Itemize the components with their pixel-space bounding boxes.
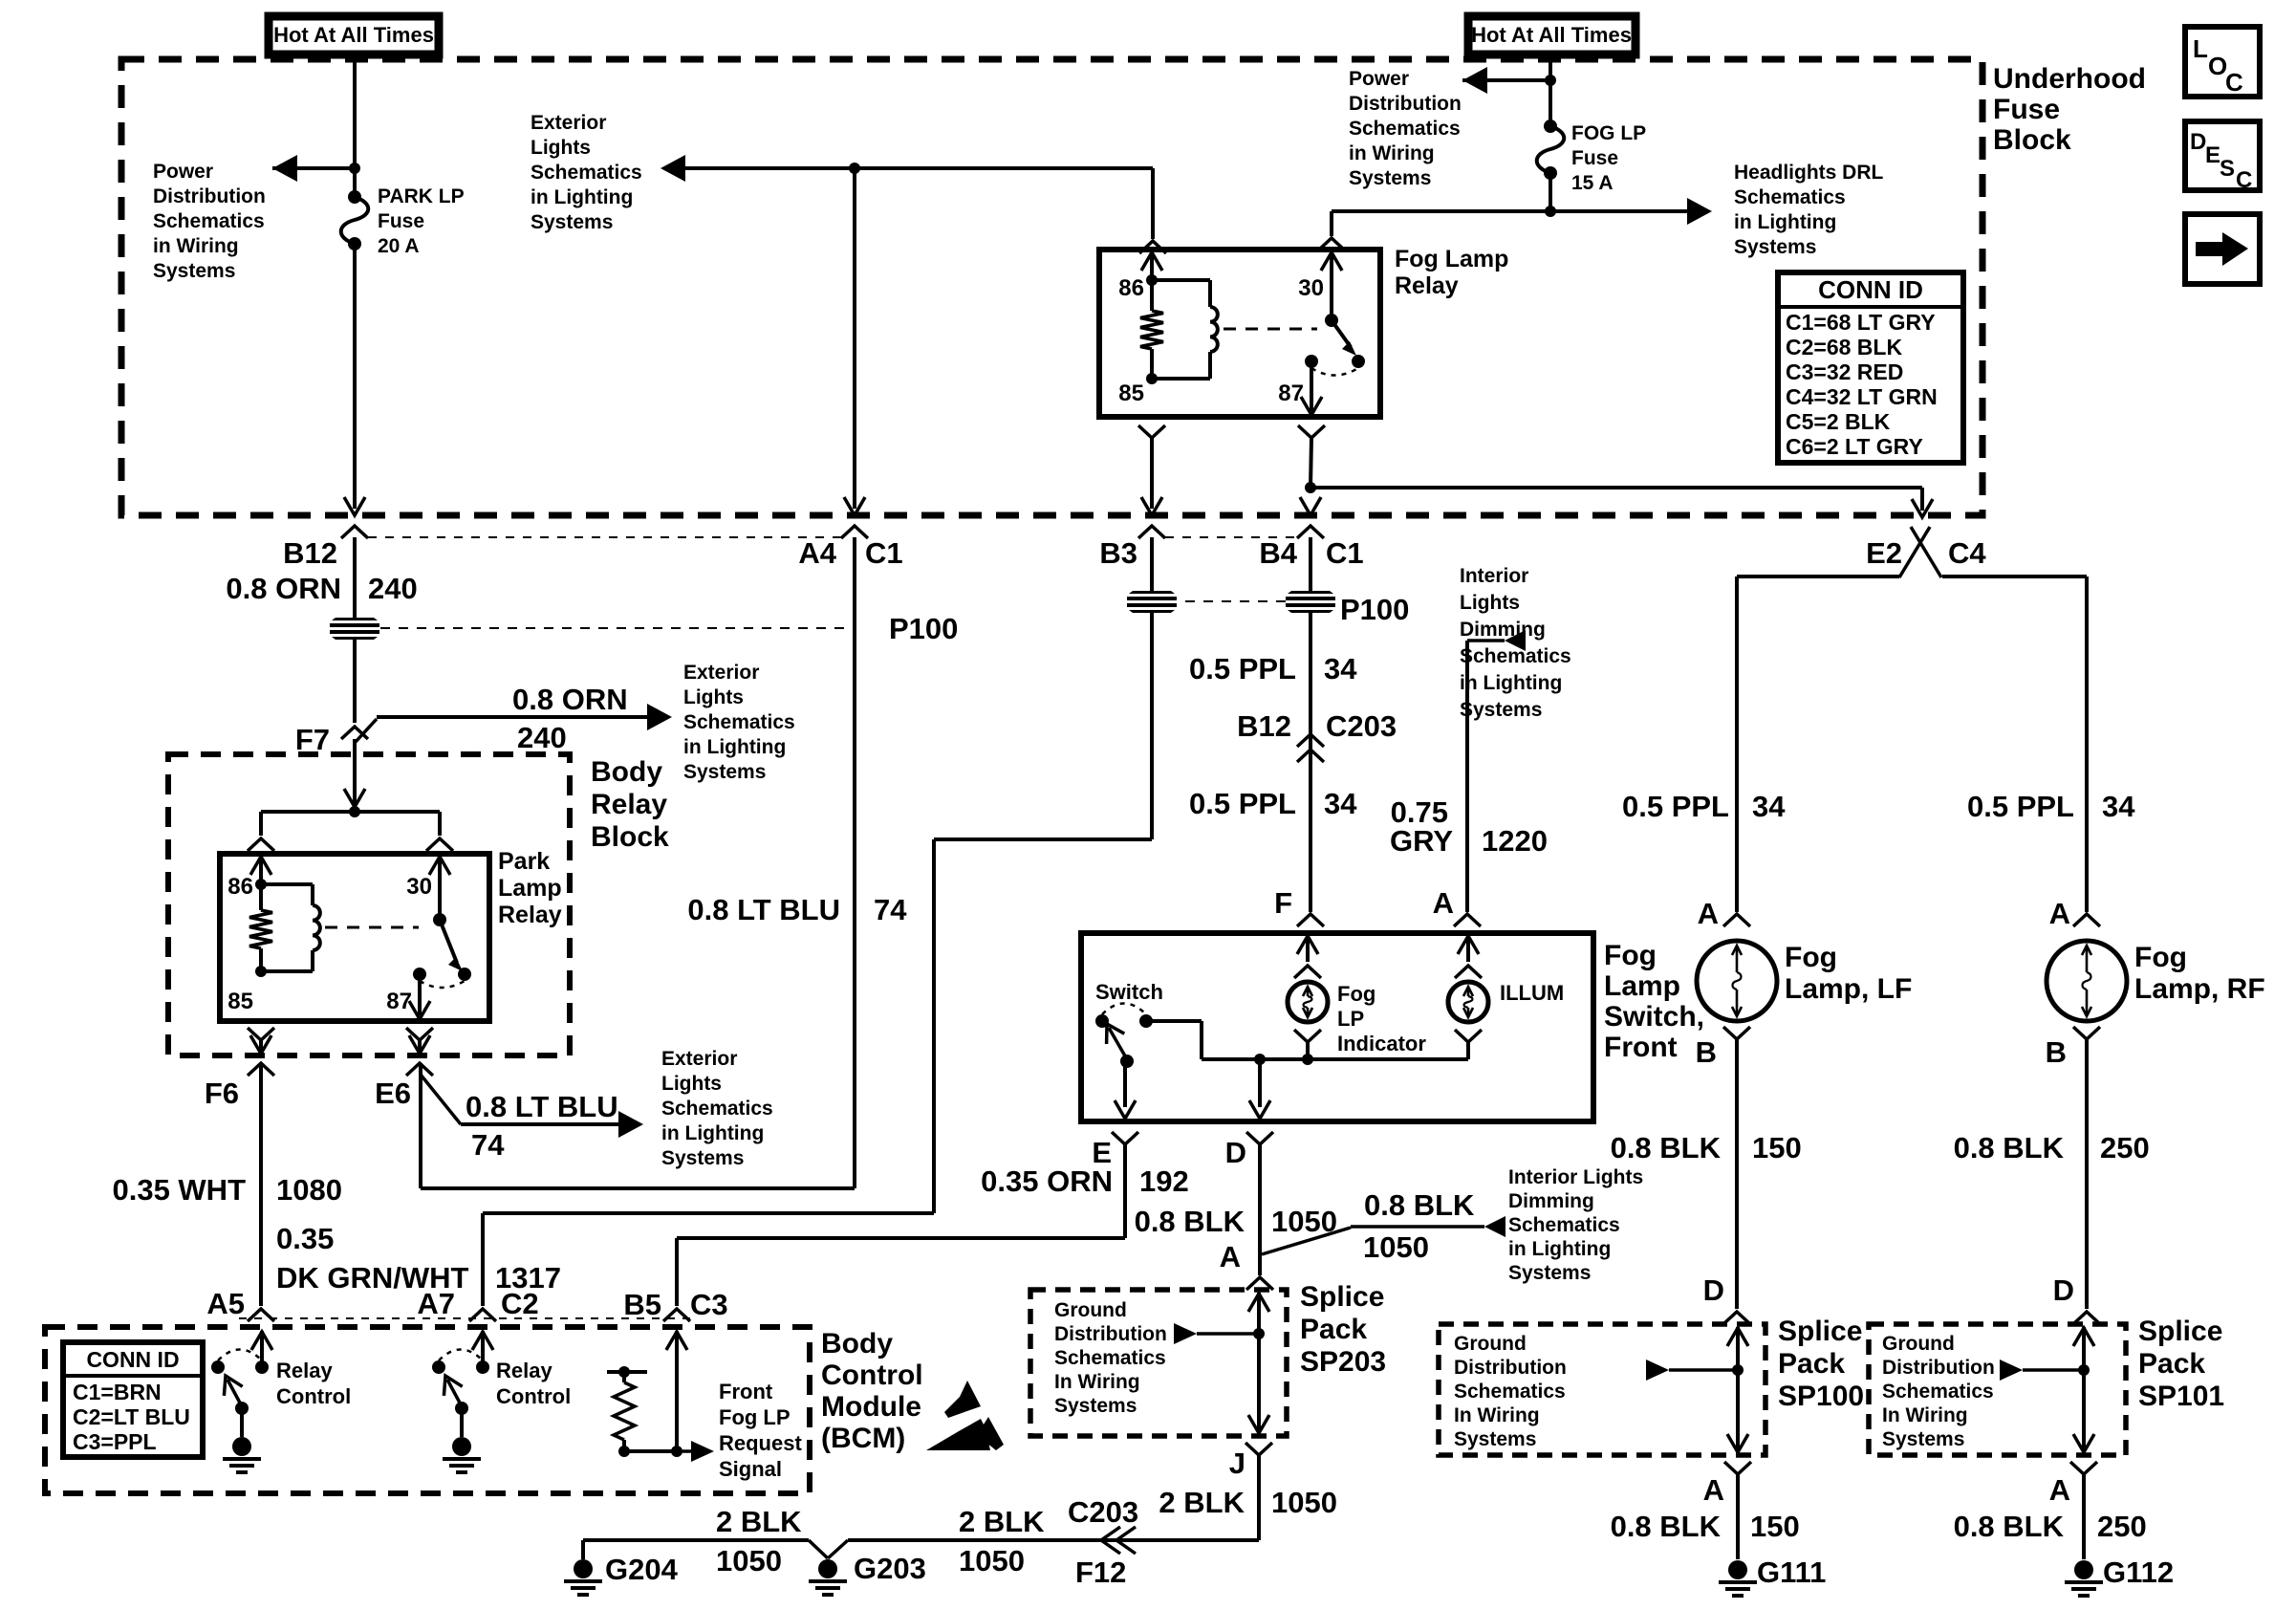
svg-text:Exterior: Exterior [531, 112, 606, 134]
svg-text:A: A [2049, 1473, 2070, 1507]
svg-text:CONN ID: CONN ID [1818, 275, 1923, 304]
svg-text:GRY: GRY [1390, 824, 1453, 858]
svg-text:C6=2 LT GRY: C6=2 LT GRY [1786, 434, 1923, 459]
svg-text:Systems: Systems [1454, 1428, 1536, 1450]
svg-text:Control: Control [496, 1384, 571, 1408]
svg-text:0.35 WHT: 0.35 WHT [112, 1173, 246, 1207]
svg-text:Interior Lights: Interior Lights [1508, 1166, 1643, 1188]
svg-text:Relay: Relay [591, 789, 667, 820]
svg-text:S: S [2220, 156, 2235, 182]
svg-text:SP203: SP203 [1300, 1346, 1386, 1378]
svg-text:0.8 BLK: 0.8 BLK [1611, 1510, 1722, 1543]
svg-text:C1: C1 [865, 536, 903, 570]
svg-text:34: 34 [1324, 787, 1357, 820]
svg-text:PARK LP: PARK LP [378, 185, 465, 207]
svg-text:Fog: Fog [2134, 942, 2187, 973]
svg-text:0.5 PPL: 0.5 PPL [1189, 652, 1296, 685]
svg-text:A: A [1433, 886, 1454, 920]
svg-text:240: 240 [517, 721, 567, 754]
svg-text:Schematics: Schematics [661, 1098, 773, 1120]
svg-text:Schematics: Schematics [531, 162, 642, 184]
svg-text:Relay: Relay [276, 1359, 333, 1382]
svg-text:E: E [2205, 142, 2220, 168]
svg-text:F7: F7 [295, 723, 330, 756]
svg-text:2 BLK: 2 BLK [1159, 1486, 1245, 1519]
svg-text:Dimming: Dimming [1508, 1190, 1594, 1212]
svg-text:Systems: Systems [661, 1147, 744, 1169]
svg-text:0.8 ORN: 0.8 ORN [512, 683, 628, 716]
svg-text:Lamp, LF: Lamp, LF [1785, 973, 1912, 1005]
svg-text:Park: Park [498, 848, 550, 875]
svg-text:Splice: Splice [2138, 1316, 2222, 1347]
svg-text:E6: E6 [375, 1077, 411, 1110]
svg-text:C3=PPL: C3=PPL [73, 1429, 157, 1454]
svg-text:Signal: Signal [719, 1457, 782, 1481]
svg-text:D: D [1225, 1136, 1246, 1169]
svg-text:1050: 1050 [1271, 1486, 1337, 1519]
svg-text:P100: P100 [1340, 593, 1409, 626]
svg-text:Distribution: Distribution [1349, 93, 1462, 115]
svg-text:Power: Power [1349, 68, 1409, 90]
svg-text:150: 150 [1750, 1510, 1800, 1543]
svg-text:0.5 PPL: 0.5 PPL [1967, 790, 2074, 823]
svg-text:G203: G203 [854, 1552, 926, 1585]
svg-text:in Lighting: in Lighting [683, 736, 786, 758]
svg-text:D: D [1703, 1273, 1724, 1307]
svg-text:B5: B5 [623, 1288, 661, 1321]
svg-text:Fog: Fog [1604, 940, 1657, 971]
svg-text:Fog Lamp: Fog Lamp [1395, 246, 1508, 272]
svg-text:C3: C3 [690, 1288, 728, 1321]
svg-text:Relay: Relay [496, 1359, 552, 1382]
svg-text:Distribution: Distribution [1882, 1357, 1995, 1379]
svg-text:C2=68 BLK: C2=68 BLK [1786, 335, 1902, 359]
svg-text:Splice: Splice [1300, 1281, 1384, 1313]
svg-text:2 BLK: 2 BLK [959, 1505, 1045, 1538]
svg-text:in Lighting: in Lighting [1734, 211, 1836, 233]
svg-text:LP: LP [1337, 1007, 1364, 1031]
svg-text:74: 74 [471, 1128, 505, 1162]
svg-text:D: D [2190, 129, 2206, 155]
svg-text:87: 87 [386, 989, 412, 1014]
svg-text:1220: 1220 [1482, 824, 1548, 858]
svg-text:C: C [2236, 167, 2252, 193]
svg-text:34: 34 [2102, 790, 2135, 823]
svg-text:(BCM): (BCM) [821, 1423, 905, 1454]
svg-text:G112: G112 [2103, 1556, 2174, 1589]
svg-text:in Wiring: in Wiring [153, 235, 239, 257]
svg-text:Systems: Systems [1882, 1428, 1964, 1450]
svg-text:Exterior: Exterior [683, 662, 759, 684]
svg-text:Systems: Systems [1054, 1395, 1137, 1417]
svg-text:Schematics: Schematics [1054, 1347, 1166, 1369]
svg-text:B: B [2046, 1035, 2067, 1069]
svg-text:0.8 ORN: 0.8 ORN [226, 572, 341, 605]
svg-text:Dimming: Dimming [1460, 619, 1546, 641]
svg-text:B: B [1696, 1035, 1717, 1069]
svg-text:74: 74 [874, 893, 907, 926]
svg-text:L: L [2193, 34, 2208, 63]
svg-text:Control: Control [821, 1360, 923, 1391]
svg-text:Request: Request [719, 1431, 802, 1455]
svg-text:A4: A4 [798, 536, 836, 570]
svg-text:Systems: Systems [1349, 167, 1431, 189]
svg-text:C1=68 LT GRY: C1=68 LT GRY [1786, 310, 1936, 335]
svg-text:G111: G111 [1757, 1556, 1826, 1589]
svg-text:Distribution: Distribution [1054, 1323, 1167, 1345]
svg-text:P100: P100 [889, 612, 958, 645]
svg-text:1050: 1050 [959, 1544, 1025, 1577]
svg-text:Systems: Systems [153, 260, 235, 282]
svg-text:C3=32 RED: C3=32 RED [1786, 359, 1903, 384]
svg-text:Hot At All Times: Hot At All Times [273, 23, 434, 47]
svg-text:Lights: Lights [683, 686, 744, 708]
svg-text:Pack: Pack [1300, 1314, 1367, 1345]
svg-text:0.35: 0.35 [276, 1222, 334, 1255]
svg-text:85: 85 [227, 989, 253, 1014]
svg-text:150: 150 [1752, 1131, 1802, 1164]
svg-text:Body: Body [591, 756, 662, 788]
svg-text:Fuse: Fuse [1571, 147, 1618, 169]
svg-text:Systems: Systems [1508, 1262, 1591, 1284]
svg-text:Schematics: Schematics [1734, 186, 1846, 208]
svg-text:0.8 BLK: 0.8 BLK [1135, 1205, 1245, 1238]
svg-text:85: 85 [1118, 381, 1144, 406]
svg-text:A: A [1698, 897, 1719, 930]
svg-text:F: F [1274, 886, 1292, 920]
svg-text:C203: C203 [1326, 709, 1397, 743]
svg-text:B4: B4 [1259, 536, 1297, 570]
svg-text:15 A: 15 A [1571, 172, 1614, 194]
svg-text:Body: Body [821, 1328, 893, 1360]
svg-text:Switch,: Switch, [1604, 1001, 1704, 1033]
svg-text:B3: B3 [1099, 536, 1137, 570]
svg-text:E2: E2 [1866, 536, 1902, 570]
svg-text:A: A [2049, 897, 2070, 930]
svg-text:Fog: Fog [1785, 942, 1837, 973]
svg-text:C2=LT BLU: C2=LT BLU [73, 1404, 190, 1429]
svg-text:FOG LP: FOG LP [1571, 122, 1646, 144]
svg-text:0.5 PPL: 0.5 PPL [1189, 787, 1296, 820]
svg-text:Pack: Pack [1778, 1348, 1845, 1380]
svg-text:Ground: Ground [1882, 1333, 1955, 1355]
svg-text:Distribution: Distribution [1454, 1357, 1567, 1379]
svg-text:250: 250 [2097, 1510, 2147, 1543]
svg-text:C: C [2225, 68, 2243, 97]
svg-text:Schematics: Schematics [153, 210, 265, 232]
svg-text:0.8 BLK: 0.8 BLK [1611, 1131, 1722, 1164]
svg-text:86: 86 [227, 874, 253, 900]
svg-text:G204: G204 [605, 1553, 679, 1586]
svg-text:Schematics: Schematics [1460, 645, 1571, 667]
svg-text:Splice: Splice [1778, 1316, 1862, 1347]
svg-text:SP101: SP101 [2138, 1381, 2224, 1412]
svg-text:30: 30 [406, 874, 432, 900]
svg-text:Lamp: Lamp [498, 875, 562, 902]
svg-text:20 A: 20 A [378, 235, 420, 257]
svg-text:2 BLK: 2 BLK [716, 1505, 802, 1538]
svg-text:0.5 PPL: 0.5 PPL [1622, 790, 1729, 823]
svg-text:1080: 1080 [276, 1173, 342, 1207]
svg-text:Systems: Systems [531, 211, 613, 233]
svg-text:C203: C203 [1068, 1495, 1138, 1529]
svg-text:86: 86 [1118, 275, 1144, 301]
svg-text:240: 240 [368, 572, 418, 605]
svg-text:Underhood: Underhood [1993, 63, 2146, 95]
svg-text:C1: C1 [1326, 536, 1364, 570]
svg-text:30: 30 [1298, 275, 1324, 301]
svg-text:A5: A5 [206, 1287, 245, 1320]
svg-text:Ground: Ground [1454, 1333, 1527, 1355]
svg-text:Module: Module [821, 1391, 921, 1423]
svg-text:Lights: Lights [1460, 592, 1520, 614]
svg-text:ILLUM: ILLUM [1500, 981, 1564, 1005]
svg-text:0.8 BLK: 0.8 BLK [1954, 1510, 2065, 1543]
svg-text:In Wiring: In Wiring [1454, 1404, 1540, 1426]
svg-text:0.8 LT BLU: 0.8 LT BLU [687, 893, 840, 926]
svg-text:CONN ID: CONN ID [86, 1347, 179, 1372]
svg-text:Relay: Relay [1395, 272, 1459, 299]
svg-text:Schematics: Schematics [1349, 118, 1461, 140]
svg-text:Hot At All Times: Hot At All Times [1471, 23, 1632, 47]
svg-text:Switch: Switch [1095, 980, 1163, 1004]
svg-text:In Wiring: In Wiring [1054, 1371, 1140, 1393]
svg-text:C1=BRN: C1=BRN [73, 1380, 162, 1404]
svg-text:Control: Control [276, 1384, 351, 1408]
svg-text:0.8 BLK: 0.8 BLK [1364, 1188, 1475, 1222]
svg-text:Systems: Systems [1460, 699, 1542, 721]
svg-text:Ground: Ground [1054, 1299, 1127, 1321]
svg-text:A: A [1703, 1473, 1724, 1507]
svg-text:B12: B12 [283, 536, 337, 570]
svg-text:1050: 1050 [1363, 1230, 1429, 1264]
svg-text:Block: Block [1993, 124, 2071, 156]
svg-text:0.8 BLK: 0.8 BLK [1954, 1131, 2065, 1164]
svg-text:0.35 ORN: 0.35 ORN [981, 1164, 1113, 1198]
svg-text:Block: Block [591, 821, 669, 853]
svg-text:F6: F6 [205, 1077, 239, 1110]
svg-text:C4: C4 [1948, 536, 1986, 570]
svg-text:Lamp, RF: Lamp, RF [2134, 973, 2265, 1005]
svg-text:Fuse: Fuse [378, 210, 424, 232]
svg-text:D: D [2053, 1273, 2074, 1307]
svg-text:Schematics: Schematics [1508, 1214, 1620, 1236]
svg-text:Lamp: Lamp [1604, 970, 1680, 1002]
svg-text:87: 87 [1278, 381, 1304, 406]
svg-text:in Lighting: in Lighting [1460, 672, 1562, 694]
svg-text:Systems: Systems [1734, 236, 1816, 258]
svg-text:in Lighting: in Lighting [531, 186, 633, 208]
svg-text:Pack: Pack [2138, 1348, 2205, 1380]
svg-text:34: 34 [1752, 790, 1786, 823]
svg-text:Headlights DRL: Headlights DRL [1734, 162, 1884, 184]
svg-text:F12: F12 [1075, 1556, 1126, 1589]
svg-text:Systems: Systems [683, 761, 766, 783]
svg-text:250: 250 [2100, 1131, 2150, 1164]
svg-text:B12: B12 [1237, 709, 1291, 743]
svg-text:A: A [1220, 1240, 1241, 1273]
svg-text:C5=2 BLK: C5=2 BLK [1786, 409, 1891, 434]
svg-text:Indicator: Indicator [1337, 1032, 1426, 1055]
svg-text:in Wiring: in Wiring [1349, 142, 1435, 164]
svg-text:Lights: Lights [531, 137, 591, 159]
svg-text:In Wiring: In Wiring [1882, 1404, 1968, 1426]
svg-text:1317: 1317 [495, 1261, 561, 1295]
svg-text:Lights: Lights [661, 1073, 722, 1095]
svg-text:192: 192 [1139, 1164, 1189, 1198]
svg-text:in Lighting: in Lighting [661, 1122, 764, 1144]
svg-text:DK GRN/WHT: DK GRN/WHT [276, 1261, 469, 1295]
svg-text:Schematics: Schematics [1454, 1381, 1566, 1403]
svg-text:SP100: SP100 [1778, 1381, 1864, 1412]
svg-text:Front: Front [1604, 1032, 1678, 1063]
svg-text:Front: Front [719, 1380, 773, 1403]
svg-text:34: 34 [1324, 652, 1357, 685]
svg-text:Interior: Interior [1460, 565, 1528, 587]
svg-text:Relay: Relay [498, 902, 562, 928]
svg-text:J: J [1229, 1447, 1245, 1480]
svg-text:Fuse: Fuse [1993, 94, 2060, 125]
svg-text:0.8 LT BLU: 0.8 LT BLU [466, 1090, 618, 1123]
svg-text:Exterior: Exterior [661, 1048, 737, 1070]
svg-text:Power: Power [153, 161, 213, 183]
svg-text:in Lighting: in Lighting [1508, 1238, 1611, 1260]
svg-text:Schematics: Schematics [683, 711, 795, 733]
svg-text:Schematics: Schematics [1882, 1381, 1994, 1403]
svg-text:Distribution: Distribution [153, 185, 266, 207]
svg-text:C4=32 LT GRN: C4=32 LT GRN [1786, 384, 1938, 409]
svg-text:1050: 1050 [716, 1544, 782, 1577]
svg-text:Fog: Fog [1337, 982, 1375, 1006]
svg-text:Fog LP: Fog LP [719, 1405, 791, 1429]
